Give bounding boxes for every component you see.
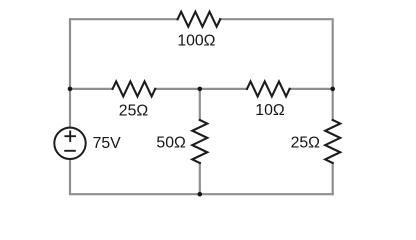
resistor R4 50ohm (center vertical) xyxy=(192,120,207,163)
svg-text:50Ω: 50Ω xyxy=(156,135,186,152)
voltage source V1 circle xyxy=(54,128,85,159)
svg-text:25Ω: 25Ω xyxy=(119,102,149,119)
wire top from 100-ohm resistor to right corner xyxy=(220,19,333,120)
svg-text:100Ω: 100Ω xyxy=(177,33,215,50)
resistor R3 10ohm (middle-right horizontal) xyxy=(247,81,290,96)
resistor R1 100ohm (top horizontal) xyxy=(178,12,221,27)
wire from 50-ohm resistor down to bottom node xyxy=(199,163,201,194)
wire from 25-ohm right resistor to bottom right corner xyxy=(332,163,334,194)
wire from node B down to 50-ohm resistor xyxy=(199,89,201,120)
svg-text:25Ω: 25Ω xyxy=(291,135,321,152)
voltage source plus sign xyxy=(65,135,75,137)
wire middle between 25-ohm and node B xyxy=(155,88,247,90)
resistor R2 25ohm (middle-left horizontal) xyxy=(113,81,156,96)
wire top from left corner to 100-ohm resistor xyxy=(70,19,178,127)
resistor R5 25ohm (right vertical) xyxy=(325,120,340,163)
wire middle from 10-ohm to node C xyxy=(290,88,333,90)
voltage source minus sign xyxy=(65,150,75,152)
node B junction dot (center-middle) xyxy=(198,87,203,92)
wire middle left from node A to 25-ohm resistor xyxy=(70,88,113,90)
wire bottom xyxy=(70,159,333,194)
svg-text:75V: 75V xyxy=(93,135,122,152)
node D junction dot (center-bottom) xyxy=(198,192,203,197)
node A junction dot (left-middle) xyxy=(68,87,73,92)
node C junction dot (right-middle) xyxy=(330,87,335,92)
svg-text:10Ω: 10Ω xyxy=(255,102,285,119)
